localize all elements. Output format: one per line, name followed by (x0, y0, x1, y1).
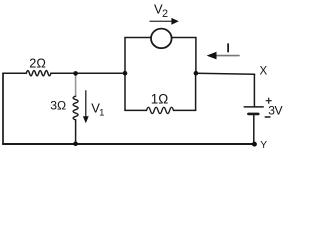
svg-text:X: X (260, 65, 268, 77)
svg-text:2Ω: 2Ω (29, 56, 46, 70)
svg-text:Y: Y (260, 140, 267, 151)
svg-text:3V: 3V (268, 103, 283, 117)
svg-text:3Ω: 3Ω (50, 98, 66, 112)
svg-text:1Ω: 1Ω (151, 91, 168, 106)
